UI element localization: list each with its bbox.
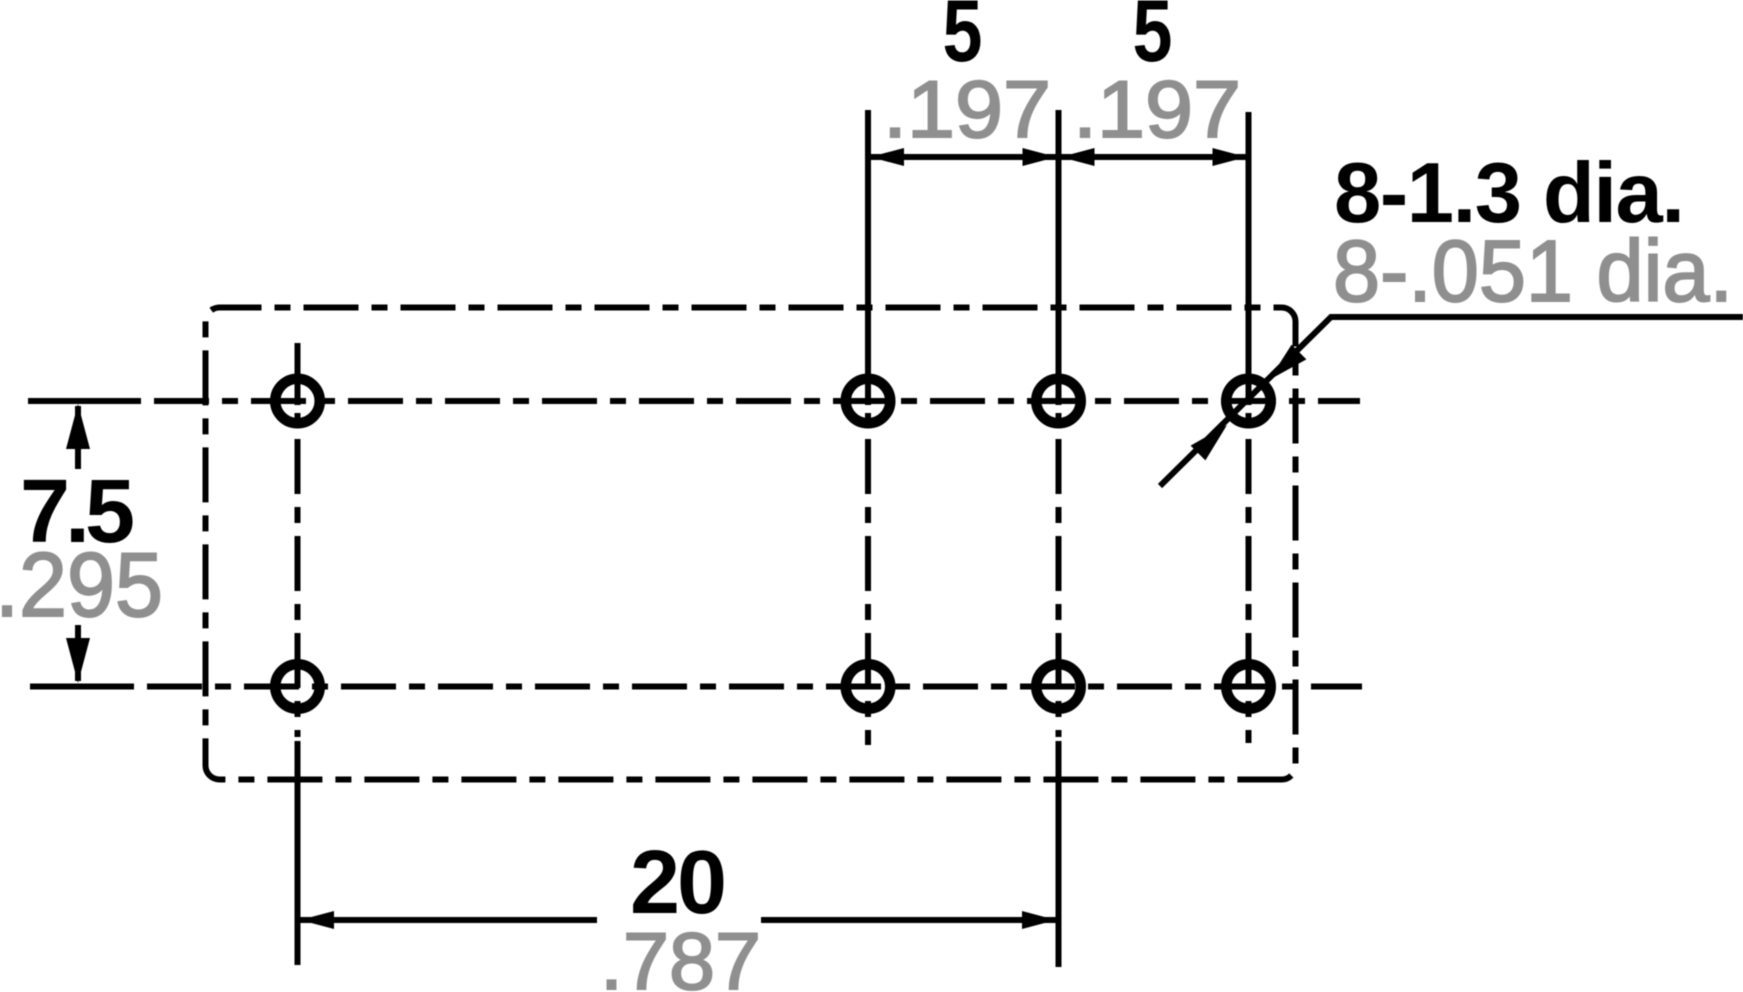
center line row 1 (horizontal through top holes) [28, 398, 141, 404]
leader arrowhead upper (points to hole A4 upper-right edge) [1269, 345, 1306, 380]
hole B2 (bottom row, col 2) [846, 664, 891, 709]
hole A2 (top row, col 2) [846, 379, 891, 424]
svg-text:.295: .295 [0, 535, 163, 636]
center line column 1 (x=297.5) [295, 343, 301, 405]
center line / extension column 4 (x=1248.5) [1246, 112, 1252, 405]
hole A1 (top row, col 1) [275, 379, 320, 424]
center line row 2 (horizontal through bottom holes) [30, 684, 134, 690]
hole B4 (bottom row, col 4) [1226, 664, 1271, 709]
svg-text:.787: .787 [600, 917, 761, 992]
leader line for hole diameter callout [1160, 317, 1743, 486]
svg-text:.197: .197 [883, 65, 1051, 155]
center line / extension column 3 (x=1058.5) [1056, 110, 1062, 405]
hole A4 (top row, col 4) [1226, 379, 1271, 424]
hole B1 (bottom row, col 1) [275, 664, 320, 709]
relay footprint outline (dash-dot rounded rectangle) [206, 308, 1296, 780]
dimension line 5mm spans (top) [868, 154, 1249, 160]
center line / extension column 2 (x=868) [865, 110, 871, 405]
leader arrowhead lower (points to hole A4 lower-left edge) [1191, 425, 1227, 460]
svg-text:.197: .197 [1073, 65, 1241, 155]
dimension line 20mm (bottom) [298, 917, 598, 923]
hole A3 (top row, col 3) [1036, 379, 1081, 424]
hole B3 (bottom row, col 3) [1036, 664, 1081, 709]
svg-text:8-.051 dia.: 8-.051 dia. [1333, 223, 1733, 320]
dimension line 7.5mm (left, vertical) [75, 406, 81, 469]
